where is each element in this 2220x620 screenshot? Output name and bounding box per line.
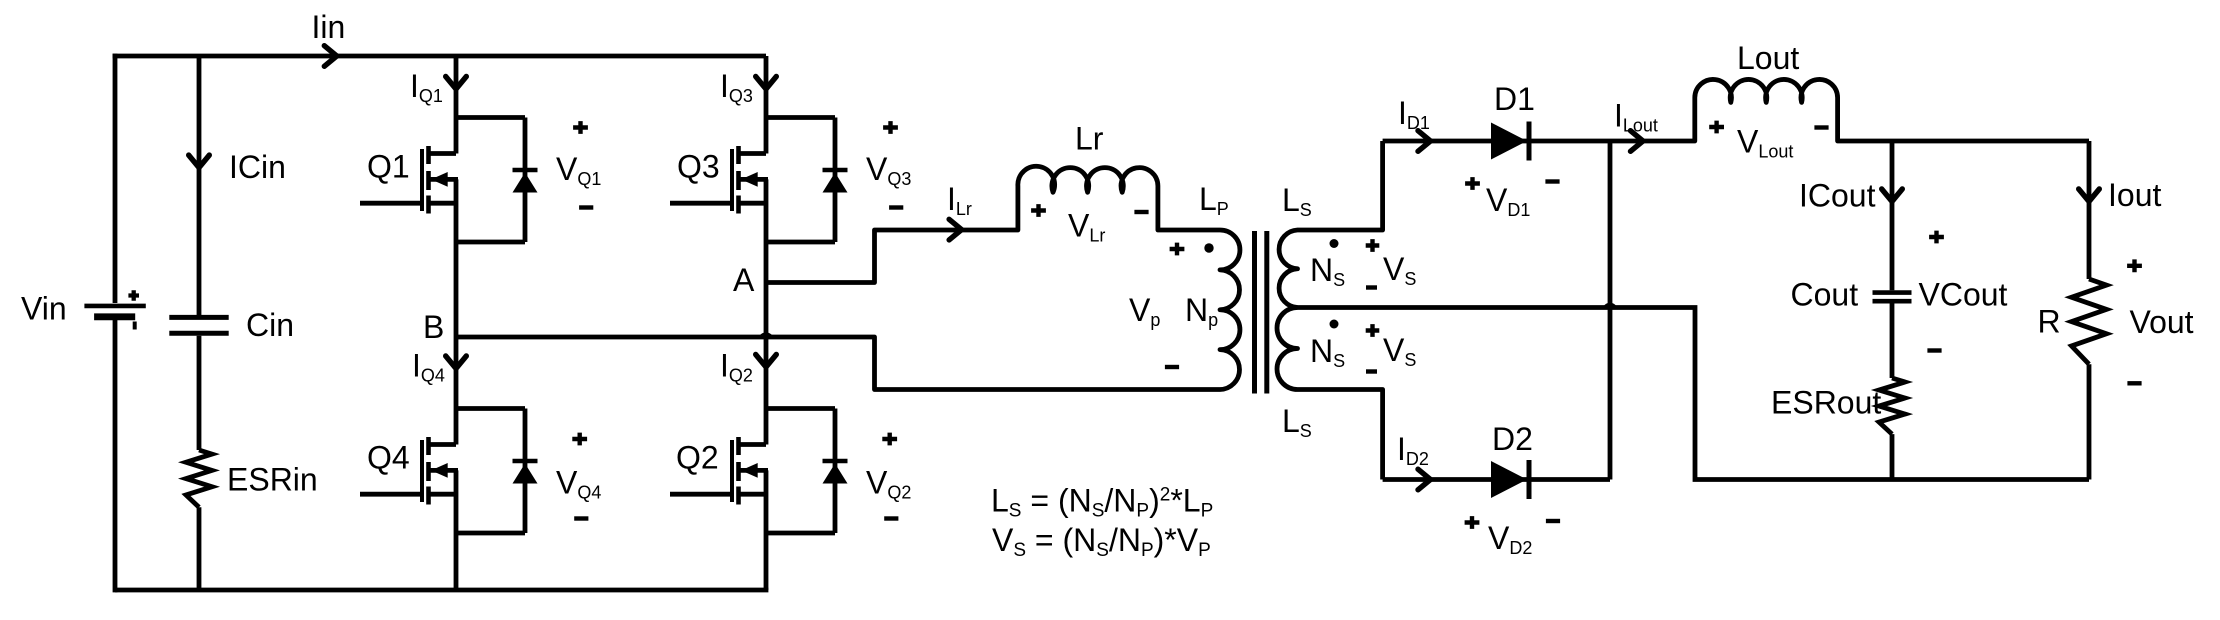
svg-text:Lr: Lr [1075, 121, 1104, 157]
svg-text:ICin: ICin [229, 149, 286, 185]
svg-text:R: R [2038, 304, 2061, 340]
svg-text:VS: VS [1383, 332, 1416, 370]
svg-text:VQ4: VQ4 [556, 465, 601, 503]
svg-text:NS: NS [1310, 252, 1345, 290]
svg-text:IQ3: IQ3 [720, 68, 753, 106]
svg-text:ESRin: ESRin [227, 462, 318, 498]
svg-text:NS: NS [1310, 333, 1345, 371]
svg-text:LS: LS [1282, 182, 1312, 220]
svg-text:VD1: VD1 [1486, 182, 1530, 220]
svg-text:VS: VS [1383, 251, 1416, 289]
svg-text:Cout: Cout [1791, 277, 1859, 313]
svg-text:VQ3: VQ3 [866, 151, 911, 189]
svg-text:Iin: Iin [312, 9, 346, 45]
svg-text:LS = (NS/NP)2*LP: LS = (NS/NP)2*LP [991, 482, 1213, 521]
svg-text:ILout: ILout [1614, 98, 1658, 136]
svg-text:Lout: Lout [1737, 40, 1799, 76]
svg-text:D2: D2 [1492, 421, 1533, 457]
svg-text:ILr: ILr [947, 181, 972, 219]
svg-text:LS: LS [1282, 403, 1312, 441]
svg-text:VQ1: VQ1 [556, 151, 601, 189]
svg-text:ID1: ID1 [1398, 95, 1430, 133]
svg-text:Vout: Vout [2130, 304, 2194, 340]
svg-text:Np: Np [1185, 292, 1218, 330]
svg-text:ID2: ID2 [1397, 431, 1429, 469]
svg-text:LP: LP [1199, 181, 1229, 219]
svg-text:VQ2: VQ2 [866, 465, 911, 503]
svg-text:VCout: VCout [1919, 277, 2008, 313]
svg-text:VD2: VD2 [1488, 520, 1532, 558]
svg-text:Q4: Q4 [367, 440, 410, 476]
svg-text:IQ1: IQ1 [410, 68, 443, 106]
svg-text:VS = (NS/NP)*VP: VS = (NS/NP)*VP [992, 522, 1211, 561]
svg-text:D1: D1 [1494, 81, 1535, 117]
svg-text:VLr: VLr [1068, 208, 1105, 246]
svg-text:B: B [423, 309, 444, 345]
svg-text:IQ2: IQ2 [720, 348, 753, 386]
svg-text:Q3: Q3 [677, 149, 720, 185]
svg-text:Vp: Vp [1129, 292, 1160, 330]
svg-text:VLout: VLout [1737, 124, 1793, 162]
svg-text:ESRout: ESRout [1771, 385, 1881, 421]
svg-text:A: A [733, 262, 755, 298]
svg-text:Iout: Iout [2108, 177, 2161, 213]
svg-text:ICout: ICout [1799, 178, 1876, 214]
svg-text:Q2: Q2 [676, 440, 719, 476]
svg-text:Vin: Vin [21, 291, 67, 327]
svg-text:Q1: Q1 [367, 149, 410, 185]
svg-text:Cin: Cin [246, 307, 294, 343]
svg-text:IQ4: IQ4 [412, 348, 445, 386]
